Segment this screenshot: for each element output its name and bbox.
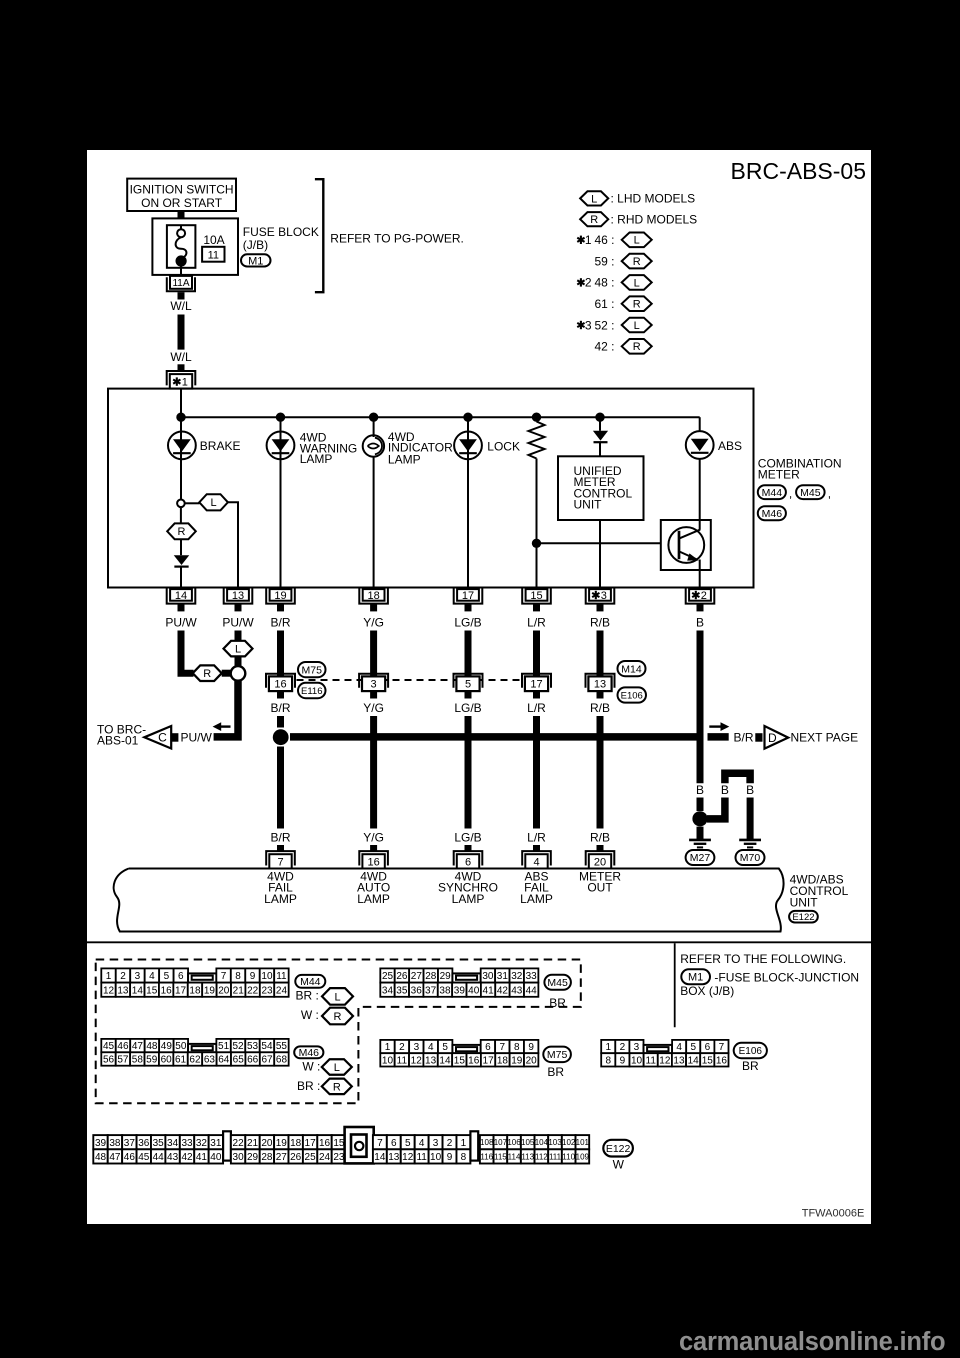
wire W/L from fuse block xyxy=(178,292,185,299)
connector label M46 xyxy=(294,1046,323,1058)
svg-text:12: 12 xyxy=(411,1055,423,1066)
svg-text:102: 102 xyxy=(562,1138,576,1147)
wire UMCU to connector *3 xyxy=(599,520,601,588)
svg-text:B/R: B/R xyxy=(270,830,290,844)
svg-text:2: 2 xyxy=(399,1042,405,1053)
svg-text:43: 43 xyxy=(167,1152,179,1163)
svg-text:106: 106 xyxy=(507,1138,521,1147)
svg-text:B: B xyxy=(721,783,729,797)
svg-text:: LHD MODELS: : LHD MODELS xyxy=(611,192,696,206)
ground M70 xyxy=(739,839,761,842)
svg-text:5: 5 xyxy=(690,1042,696,1053)
wire node to hexagon R xyxy=(180,507,182,523)
wire from node to LHD hexagon xyxy=(185,502,200,504)
svg-text:44: 44 xyxy=(526,985,538,996)
wire hexagon R to diode xyxy=(180,539,182,555)
svg-text:M1: M1 xyxy=(688,972,703,984)
wire 4WD indicator lamp branch xyxy=(373,417,375,587)
svg-text:E122: E122 xyxy=(792,912,814,923)
svg-text:W/L: W/L xyxy=(170,350,192,364)
connector 11A xyxy=(167,277,195,291)
svg-text:12: 12 xyxy=(103,985,115,996)
wire stub below pin, label PU/W xyxy=(235,604,242,612)
svg-text:47: 47 xyxy=(109,1152,121,1163)
svg-text:R/B: R/B xyxy=(590,701,610,715)
svg-text:15: 15 xyxy=(530,590,542,602)
svg-text:28: 28 xyxy=(425,971,437,982)
svg-text:Y/G: Y/G xyxy=(363,701,384,715)
svg-text:21: 21 xyxy=(233,985,245,996)
main bus wire to next page xyxy=(290,733,700,741)
wire vertical crossing bus xyxy=(533,716,540,829)
svg-text:9: 9 xyxy=(447,1152,453,1163)
svg-text:UNIT: UNIT xyxy=(574,498,603,512)
meter internal bus wire xyxy=(181,416,700,418)
svg-text:16: 16 xyxy=(319,1138,331,1149)
svg-text:8: 8 xyxy=(605,1055,611,1066)
svg-text:27: 27 xyxy=(276,1152,288,1163)
BRAKE indicator LED xyxy=(168,432,196,460)
legend row *1 46 : L xyxy=(580,236,582,244)
svg-text:E106: E106 xyxy=(621,690,643,701)
svg-text:9: 9 xyxy=(528,1042,534,1053)
dashed harness link line xyxy=(297,679,522,681)
connector label M75 xyxy=(543,1047,571,1063)
svg-text:REFER TO THE FOLLOWING.: REFER TO THE FOLLOWING. xyxy=(680,952,846,966)
svg-text:6: 6 xyxy=(391,1138,397,1149)
svg-text:25: 25 xyxy=(305,1152,317,1163)
svg-text:42: 42 xyxy=(497,985,509,996)
wire resistor to transistor base node xyxy=(536,459,538,544)
svg-text:M14: M14 xyxy=(621,663,642,675)
svg-text:59: 59 xyxy=(146,1055,158,1066)
svg-text:5: 5 xyxy=(465,679,471,691)
svg-text:8: 8 xyxy=(235,971,241,982)
junction node at x=181 on meter bus xyxy=(176,413,185,422)
svg-text:11: 11 xyxy=(646,1055,657,1066)
svg-text:3: 3 xyxy=(414,1042,420,1053)
connector label M14 xyxy=(618,661,646,676)
svg-text:37: 37 xyxy=(124,1138,136,1149)
wire PU/W from pin 14 xyxy=(181,631,194,674)
svg-text:R: R xyxy=(633,256,641,268)
svg-text:10: 10 xyxy=(382,1055,394,1066)
svg-text:40: 40 xyxy=(210,1152,222,1163)
transistor Q (meter output) xyxy=(668,527,704,563)
svg-text:L: L xyxy=(634,320,640,332)
svg-text:3: 3 xyxy=(634,1042,640,1053)
svg-text:111: 111 xyxy=(549,1152,562,1161)
svg-text:6: 6 xyxy=(178,971,184,982)
harness connector pin 3 xyxy=(359,674,388,688)
svg-text:M44: M44 xyxy=(762,487,783,499)
svg-text:4: 4 xyxy=(149,971,155,982)
svg-text:10: 10 xyxy=(430,1152,442,1163)
terminal block before C arrow xyxy=(171,733,178,742)
svg-text:6: 6 xyxy=(465,857,471,869)
svg-text:107: 107 xyxy=(494,1138,508,1147)
svg-text:4: 4 xyxy=(419,1138,425,1149)
ground M27 xyxy=(689,839,711,842)
svg-text:14: 14 xyxy=(374,1152,386,1163)
svg-text:10: 10 xyxy=(261,971,273,982)
svg-text:BR: BR xyxy=(547,1065,564,1079)
svg-text:14: 14 xyxy=(439,1055,451,1066)
svg-text:7: 7 xyxy=(719,1042,725,1053)
svg-text:2: 2 xyxy=(585,276,592,290)
svg-text:BR: BR xyxy=(742,1059,759,1073)
harness connector pin 16 xyxy=(266,674,295,688)
diode on brake branch xyxy=(174,555,190,565)
connector label M45 xyxy=(796,485,825,499)
svg-text:3: 3 xyxy=(585,318,592,332)
wire from hexagon L to connector 13 drop xyxy=(228,502,238,587)
svg-text:M46: M46 xyxy=(762,508,783,520)
svg-text:20: 20 xyxy=(261,1138,273,1149)
svg-text:M45: M45 xyxy=(547,977,568,989)
wire transistor emitter to connector *2 xyxy=(699,560,701,588)
wire stub below pin, label L/R xyxy=(533,604,540,612)
svg-text:38: 38 xyxy=(439,985,451,996)
wire stub below harness connector, label Y/G xyxy=(370,691,377,698)
svg-text:112: 112 xyxy=(535,1152,548,1161)
note divider line xyxy=(674,943,676,1027)
hexagon R (RHD) inline xyxy=(193,665,222,681)
4WD/ABS control unit box xyxy=(114,869,784,932)
svg-text:18: 18 xyxy=(497,1055,509,1066)
svg-text:27: 27 xyxy=(411,971,423,982)
svg-text:L/R: L/R xyxy=(527,701,546,715)
svg-text:FUSE BLOCK: FUSE BLOCK xyxy=(243,225,319,239)
junction node B/R bus xyxy=(273,729,289,745)
svg-text:39: 39 xyxy=(454,985,466,996)
svg-text:4: 4 xyxy=(676,1042,682,1053)
svg-text:49: 49 xyxy=(161,1041,173,1052)
svg-text:11: 11 xyxy=(397,1055,408,1066)
legend hexagon R = RHD models xyxy=(580,212,608,226)
svg-text:16: 16 xyxy=(161,985,173,996)
E122 section spacer block xyxy=(223,1131,231,1160)
wire junction to ground M27 xyxy=(697,827,704,840)
svg-text:16: 16 xyxy=(274,679,286,691)
svg-text:41: 41 xyxy=(196,1152,208,1163)
svg-text:19: 19 xyxy=(204,985,216,996)
svg-text:42: 42 xyxy=(181,1152,193,1163)
wire 4WD warning lamp branch xyxy=(280,417,282,587)
svg-text:L: L xyxy=(211,497,217,509)
svg-text:ON OR START: ON OR START xyxy=(141,196,223,210)
connector pin 18 on combination meter xyxy=(359,588,388,603)
legend hexagon L = LHD models xyxy=(580,191,608,205)
svg-text:METER: METER xyxy=(758,468,800,482)
svg-text:33: 33 xyxy=(526,971,538,982)
wire base of transistor xyxy=(537,542,661,544)
connector pin *3 on combination meter xyxy=(586,588,615,603)
svg-text:R: R xyxy=(633,299,641,311)
wire B to ground junction xyxy=(697,798,704,812)
svg-text:OUT: OUT xyxy=(587,881,613,895)
svg-text:62: 62 xyxy=(189,1055,201,1066)
connector pin 20 on 4WD/ABS control unit xyxy=(586,851,615,865)
svg-text:B: B xyxy=(746,783,754,797)
wire B from connector *2 xyxy=(697,631,704,784)
svg-text:1: 1 xyxy=(605,1042,611,1053)
svg-text:LAMP: LAMP xyxy=(388,452,421,466)
wire stub below harness connector, label LG/B xyxy=(465,691,472,698)
svg-text:39: 39 xyxy=(95,1138,107,1149)
wire vertical crossing bus xyxy=(370,716,377,829)
svg-text:3: 3 xyxy=(601,590,607,602)
svg-text:LG/B: LG/B xyxy=(454,615,481,629)
wire diode to connector 14 xyxy=(180,567,182,588)
connector *1 xyxy=(167,371,196,385)
svg-text:116: 116 xyxy=(480,1152,493,1161)
junction node at x=280.5 on meter bus xyxy=(276,413,285,422)
svg-text:48: 48 xyxy=(95,1152,107,1163)
svg-text:BRC-ABS-05: BRC-ABS-05 xyxy=(731,158,866,184)
svg-text:20: 20 xyxy=(594,857,606,869)
connector pin 16 on 4WD/ABS control unit xyxy=(359,851,388,865)
svg-text:57: 57 xyxy=(117,1055,129,1066)
resistor in combination meter xyxy=(536,417,538,421)
wire stub below pin, label B xyxy=(697,604,704,612)
junction node B ground xyxy=(692,811,707,826)
svg-text:24: 24 xyxy=(276,985,288,996)
wire down to harness connector xyxy=(370,631,377,677)
svg-text:45: 45 xyxy=(138,1152,150,1163)
svg-text:W/L: W/L xyxy=(170,299,192,313)
svg-text:6: 6 xyxy=(705,1042,711,1053)
svg-text:1: 1 xyxy=(182,377,188,389)
wire node down to C arrow xyxy=(214,681,238,737)
off-page arrow C to BRC-ABS-01 xyxy=(144,726,171,749)
svg-text:48: 48 xyxy=(146,1041,158,1052)
svg-text:M44: M44 xyxy=(300,976,321,988)
svg-text:REFER TO PG-POWER.: REFER TO PG-POWER. xyxy=(330,232,464,246)
svg-text:LG/B: LG/B xyxy=(454,830,481,844)
wire ignition switch to fuse block xyxy=(178,211,185,219)
svg-text:43: 43 xyxy=(511,985,523,996)
connector M44 pinout grid pins 1-24 xyxy=(101,968,115,982)
direction arrow on bus xyxy=(709,725,720,727)
wire down to harness connector xyxy=(597,631,604,677)
svg-text:R: R xyxy=(590,214,598,226)
svg-text:34: 34 xyxy=(382,985,394,996)
svg-text:36: 36 xyxy=(138,1138,150,1149)
svg-text:11: 11 xyxy=(416,1152,427,1163)
svg-text:7: 7 xyxy=(377,1138,383,1149)
svg-text:15: 15 xyxy=(702,1055,714,1066)
junction node at x=600 on meter bus xyxy=(595,413,604,422)
harness connector pin 17 xyxy=(522,674,551,688)
svg-text:BR :: BR : xyxy=(297,1079,320,1093)
svg-text:64: 64 xyxy=(218,1055,230,1066)
connector M46 pinout grid pins 45-68 xyxy=(101,1039,115,1052)
svg-text:103: 103 xyxy=(548,1138,562,1147)
svg-text:20: 20 xyxy=(526,1055,538,1066)
legend row *2 48 : L xyxy=(580,278,582,286)
svg-text:66: 66 xyxy=(247,1055,259,1066)
svg-text:23: 23 xyxy=(333,1152,345,1163)
svg-text:LAMP: LAMP xyxy=(264,892,297,906)
svg-text:114: 114 xyxy=(508,1152,521,1161)
svg-text:15: 15 xyxy=(333,1138,345,1149)
svg-text:W: W xyxy=(613,1158,625,1172)
svg-text:BR: BR xyxy=(549,996,566,1010)
svg-text:46: 46 xyxy=(124,1152,136,1163)
direction arrow on PU/W wire xyxy=(221,725,231,727)
connector E122 pinout grid xyxy=(93,1135,107,1149)
transistor box xyxy=(661,520,711,570)
svg-text:65: 65 xyxy=(233,1055,245,1066)
svg-text:5: 5 xyxy=(405,1138,411,1149)
harness connector pin 13 xyxy=(586,674,615,688)
svg-text:14: 14 xyxy=(688,1055,700,1066)
svg-text:42 :: 42 : xyxy=(594,340,614,354)
LOCK indicator LED xyxy=(454,432,482,460)
svg-text:58: 58 xyxy=(132,1055,144,1066)
svg-text:47: 47 xyxy=(132,1041,144,1052)
svg-text:12: 12 xyxy=(402,1152,414,1163)
svg-text:L: L xyxy=(334,991,340,1003)
svg-text:23: 23 xyxy=(261,985,273,996)
svg-text:R: R xyxy=(334,1011,342,1023)
svg-text:18: 18 xyxy=(189,985,201,996)
svg-text:37: 37 xyxy=(425,985,437,996)
svg-text:B/R: B/R xyxy=(270,615,290,629)
connector label M44 xyxy=(758,485,786,499)
svg-text:14: 14 xyxy=(175,590,187,602)
svg-text:BR :: BR : xyxy=(296,989,319,1003)
svg-text:16: 16 xyxy=(716,1055,728,1066)
wire stub below pin, label B/R xyxy=(277,604,284,612)
svg-text:ABS: ABS xyxy=(718,439,742,453)
connector label E116 xyxy=(298,683,326,698)
svg-text:4: 4 xyxy=(533,857,539,869)
svg-text:19: 19 xyxy=(276,1138,288,1149)
unified meter control unit box xyxy=(558,456,644,520)
wire down to harness connector xyxy=(277,631,284,677)
svg-text:113: 113 xyxy=(521,1152,534,1161)
svg-text:1: 1 xyxy=(585,233,592,247)
svg-text:11: 11 xyxy=(208,249,219,261)
connector pin 4 on 4WD/ABS control unit xyxy=(522,851,551,865)
fuse 10A symbol xyxy=(167,225,196,268)
connector label M44 xyxy=(295,975,325,988)
connector pin 7 on 4WD/ABS control unit xyxy=(266,851,295,865)
svg-text:M27: M27 xyxy=(690,852,711,864)
svg-text:105: 105 xyxy=(521,1138,535,1147)
svg-text:21: 21 xyxy=(247,1138,259,1149)
svg-text:115: 115 xyxy=(494,1152,507,1161)
svg-text:48 :: 48 : xyxy=(594,276,614,290)
wire stub below harness connector, label L/R xyxy=(533,691,540,698)
svg-text:30: 30 xyxy=(233,1152,245,1163)
svg-text:L: L xyxy=(591,193,597,205)
svg-text:11A: 11A xyxy=(172,278,189,289)
svg-text:UNIT: UNIT xyxy=(790,895,819,909)
svg-text:29: 29 xyxy=(247,1152,259,1163)
svg-text:Y/G: Y/G xyxy=(363,830,384,844)
svg-text:60: 60 xyxy=(161,1055,173,1066)
svg-text:1: 1 xyxy=(385,1042,391,1053)
svg-text:1: 1 xyxy=(461,1138,467,1149)
svg-text:13: 13 xyxy=(594,679,606,691)
svg-text:LAMP: LAMP xyxy=(300,452,333,466)
separator line xyxy=(87,941,871,943)
connector label M75 xyxy=(298,662,326,677)
svg-text:34: 34 xyxy=(167,1138,179,1149)
svg-text:3: 3 xyxy=(371,679,377,691)
svg-text:D: D xyxy=(768,731,777,745)
svg-text:LAMP: LAMP xyxy=(357,892,390,906)
svg-text:L/R: L/R xyxy=(527,830,546,844)
svg-text:24: 24 xyxy=(319,1152,331,1163)
svg-text:30: 30 xyxy=(482,971,494,982)
junction node resistor/base xyxy=(532,539,541,548)
svg-text:17: 17 xyxy=(530,679,542,691)
svg-text:26: 26 xyxy=(396,971,408,982)
junction node at x=536.5 on meter bus xyxy=(532,413,541,422)
svg-text:16: 16 xyxy=(468,1055,480,1066)
wire W/L xyxy=(178,315,185,350)
svg-text:E116: E116 xyxy=(301,686,322,697)
svg-text:M46: M46 xyxy=(299,1047,320,1059)
svg-text:7: 7 xyxy=(277,857,283,869)
wire vertical crossing bus xyxy=(597,716,604,829)
connector pin *2 on combination meter xyxy=(686,588,715,603)
wire brake branch xyxy=(180,417,182,500)
svg-text:BOX (J/B): BOX (J/B) xyxy=(680,984,734,998)
svg-text:15: 15 xyxy=(146,985,158,996)
svg-text:B: B xyxy=(696,783,704,797)
svg-text:L: L xyxy=(634,277,640,289)
svg-text:35: 35 xyxy=(153,1138,165,1149)
svg-text:M45: M45 xyxy=(800,487,821,499)
wire bus corner to ABS LED xyxy=(699,417,701,431)
svg-text:W :: W : xyxy=(301,1008,319,1022)
connector label M45 xyxy=(544,975,571,990)
wire stub below pin, label LG/B xyxy=(465,604,472,612)
svg-text:L: L xyxy=(634,235,640,247)
svg-text:45: 45 xyxy=(103,1041,115,1052)
svg-text:46 :: 46 : xyxy=(594,233,614,247)
terminal block before D arrow xyxy=(755,733,762,742)
connector label M1 xyxy=(241,254,271,266)
wire vertical crossing bus xyxy=(465,716,472,829)
ABS indicator LED xyxy=(686,431,714,459)
svg-text:52: 52 xyxy=(232,1041,244,1052)
svg-text:108: 108 xyxy=(480,1138,494,1147)
svg-text:101: 101 xyxy=(576,1138,590,1147)
connector pin 19 on combination meter xyxy=(266,588,295,603)
4WD WARNING LAMP LED xyxy=(267,432,295,460)
svg-text:9: 9 xyxy=(250,971,256,982)
svg-text:,: , xyxy=(789,486,792,500)
svg-text:50: 50 xyxy=(175,1041,187,1052)
wire B/R vertical through bus junction xyxy=(277,716,284,728)
svg-text:20: 20 xyxy=(218,985,230,996)
svg-text:4: 4 xyxy=(428,1042,434,1053)
svg-text:13: 13 xyxy=(232,590,244,602)
ignition switch box xyxy=(127,179,236,211)
svg-text:R: R xyxy=(633,341,641,353)
combination meter box xyxy=(108,389,754,588)
connector label M1 xyxy=(681,969,710,984)
svg-text:40: 40 xyxy=(468,985,480,996)
wire from *1 into meter xyxy=(180,389,182,418)
svg-text:R/B: R/B xyxy=(590,615,610,629)
